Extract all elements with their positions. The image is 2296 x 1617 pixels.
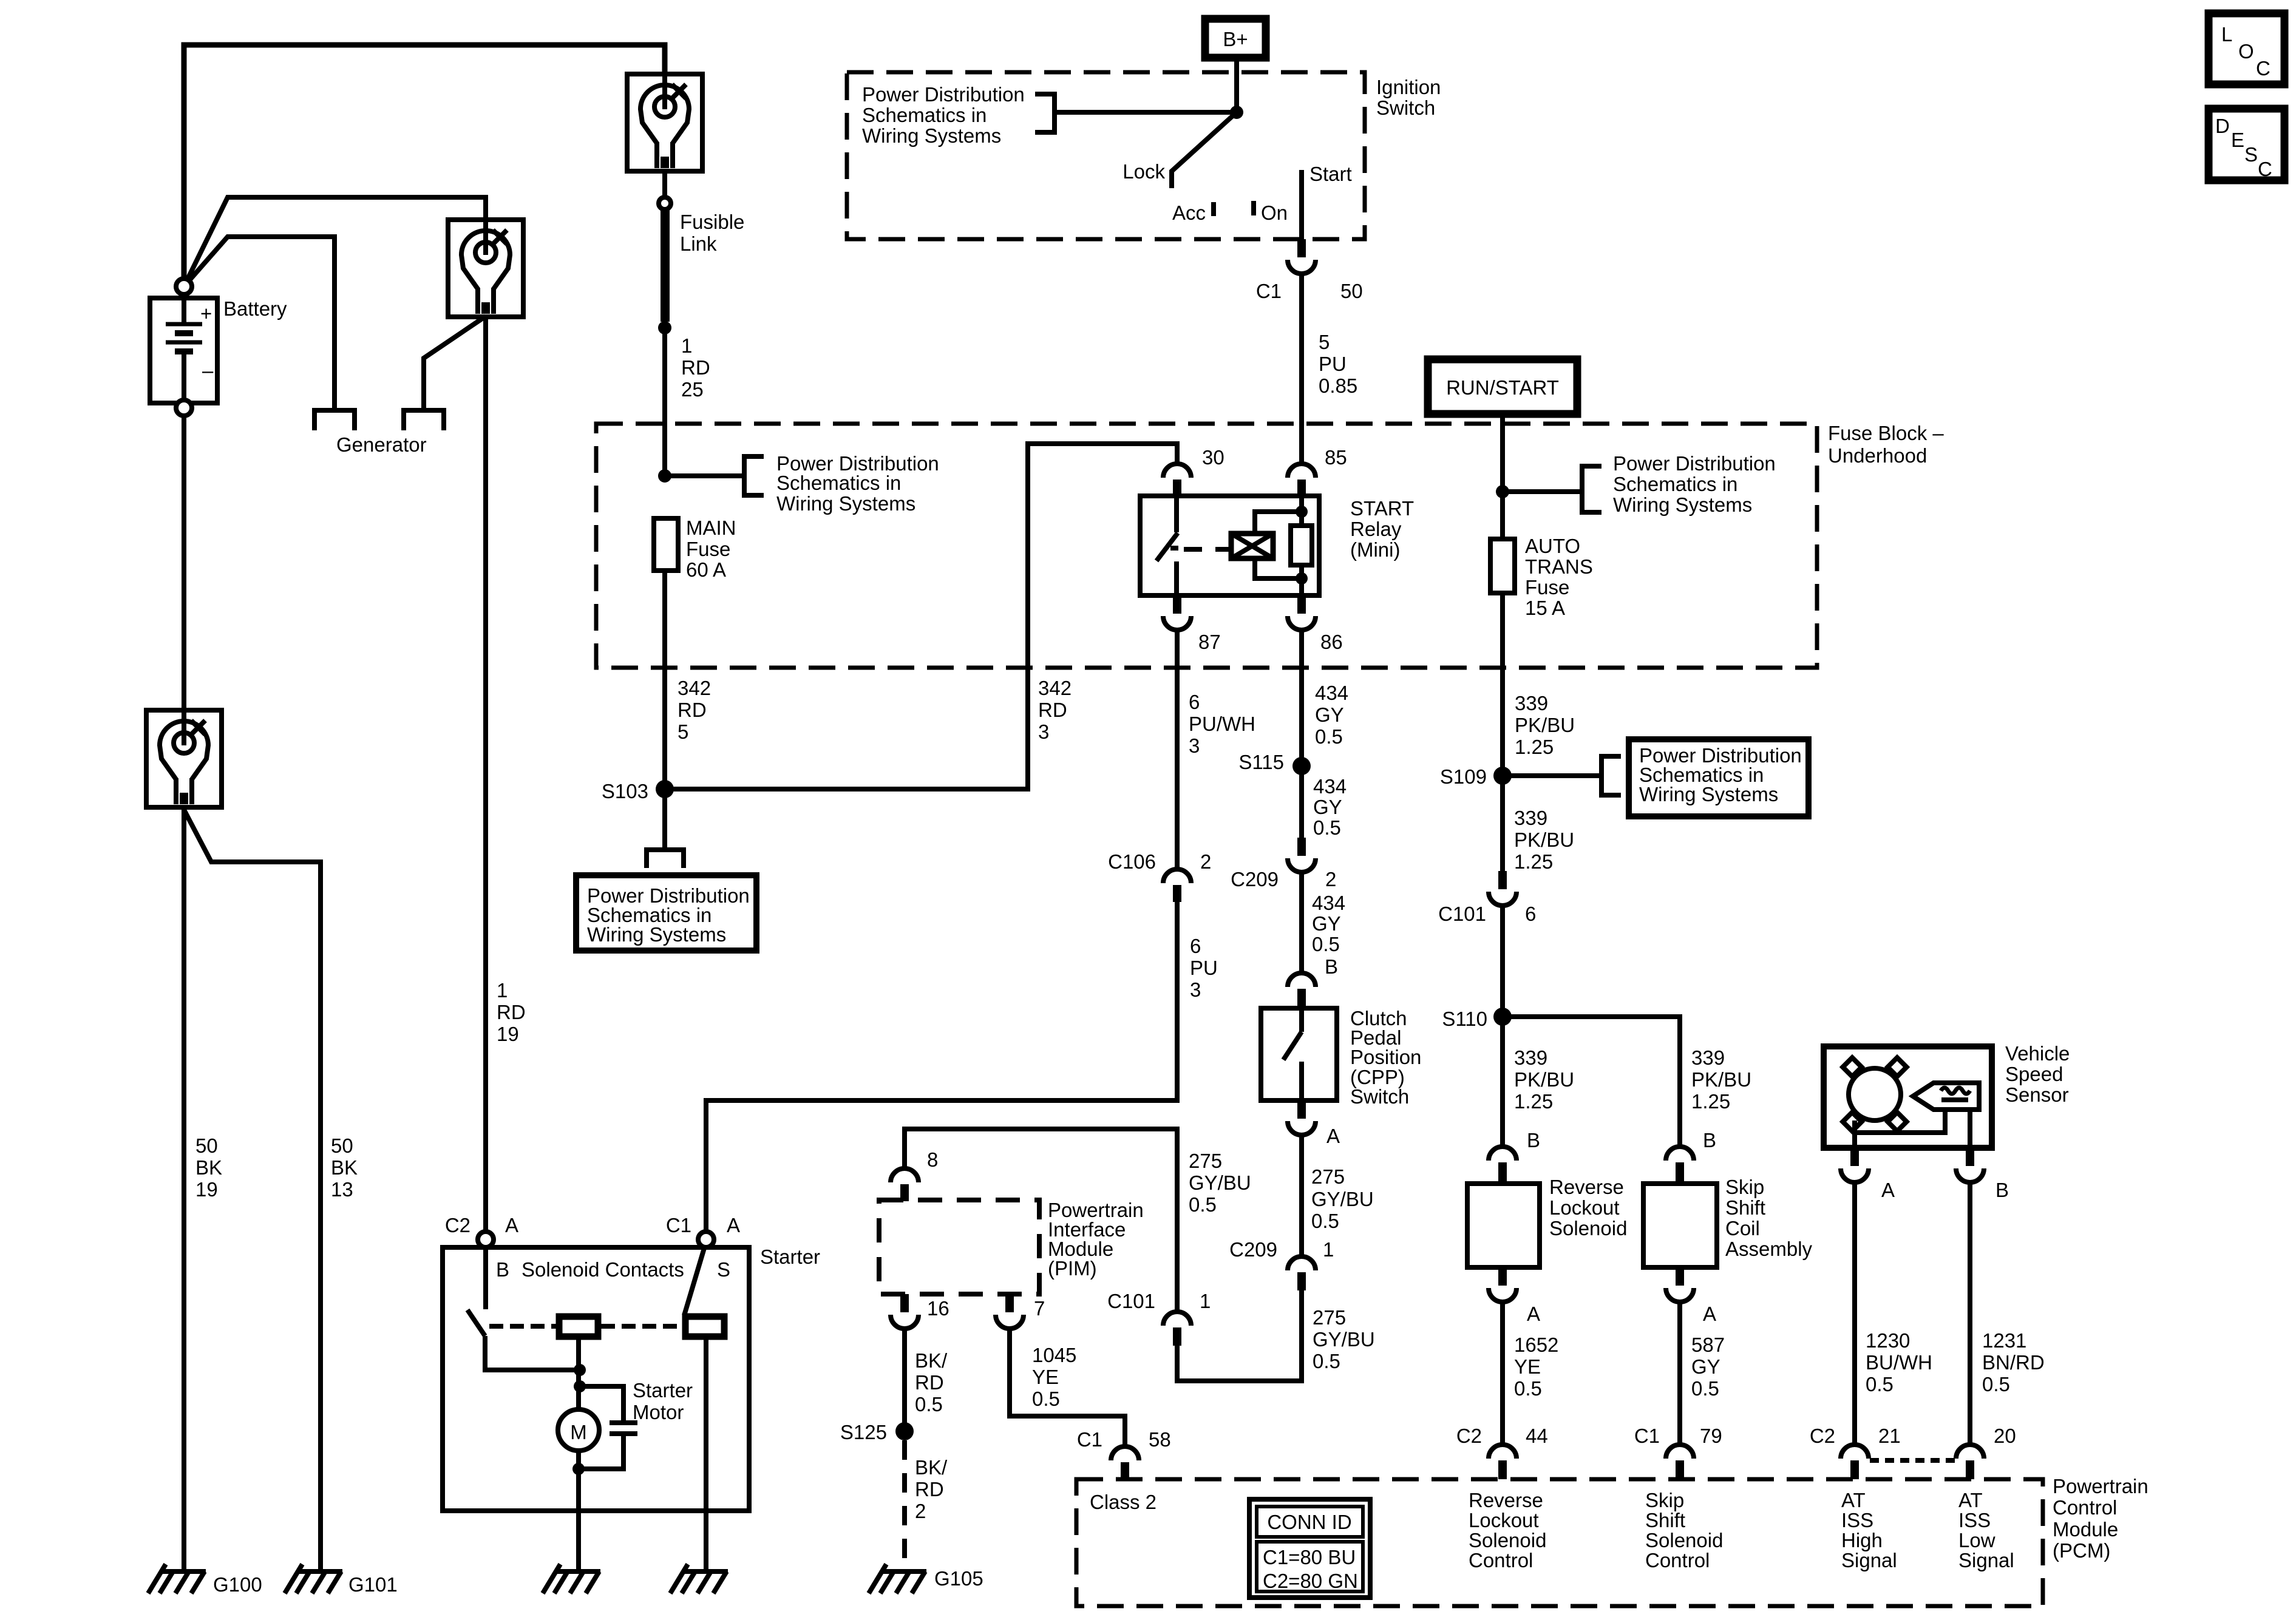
relay coil <box>1231 512 1302 578</box>
label: G101 <box>348 1573 398 1596</box>
svg-text:Fusible: Fusible <box>680 211 744 233</box>
svg-text:Skip: Skip <box>1725 1176 1764 1198</box>
connector: relay pin 86 <box>1288 595 1316 630</box>
wire: S103 branch right and up to relay 30 <box>665 444 1177 789</box>
svg-text:Acc: Acc <box>1172 202 1206 224</box>
svg-text:CONN ID: CONN ID <box>1267 1511 1351 1533</box>
svg-text:15 A: 15 A <box>1525 597 1565 619</box>
label: C2 / 21 <box>1810 1425 1901 1447</box>
svg-text:RD: RD <box>1038 699 1067 721</box>
svg-text:–: – <box>202 359 214 382</box>
wire: ring3 branch to G101 <box>184 810 321 1570</box>
svg-text:16: 16 <box>927 1297 949 1320</box>
label: Reverse Lockout Solenoid Control <box>1469 1489 1546 1571</box>
svg-text:8: 8 <box>927 1148 938 1171</box>
connector C106 pin 2 <box>1163 869 1191 902</box>
svg-text:S115: S115 <box>1238 751 1284 773</box>
starter B contact and blade <box>467 1247 580 1370</box>
svg-text:0.5: 0.5 <box>1313 1350 1340 1372</box>
solenoid dashed actuator <box>489 1324 682 1329</box>
svg-text:Lock: Lock <box>1123 160 1165 183</box>
label: S110 <box>1442 1008 1487 1030</box>
svg-text:C: C <box>2258 158 2272 180</box>
label: Powertrain Interface Module (PIM) <box>1048 1199 1144 1280</box>
junction dot at B+ feed <box>1230 106 1243 119</box>
bracket: S109 power distribution <box>1601 756 1621 795</box>
label: 85 <box>1325 446 1347 469</box>
svg-text:Power Distribution: Power Distribution <box>1613 452 1776 475</box>
svg-text:A: A <box>1881 1179 1895 1201</box>
label: S109 <box>1440 765 1487 788</box>
label: 50 BK 13 <box>331 1134 358 1201</box>
connector: skip shift pin A <box>1666 1267 1694 1302</box>
svg-text:434: 434 <box>1312 892 1345 914</box>
svg-text:58: 58 <box>1149 1428 1171 1451</box>
label: 275 GY/BU 0.5 <box>1311 1165 1374 1232</box>
label: B Solenoid Contacts S <box>496 1258 730 1281</box>
contact: Acc <box>1211 202 1216 216</box>
connector: CPP pin A <box>1288 1100 1316 1135</box>
starter motor M <box>558 1409 599 1451</box>
svg-text:A: A <box>505 1214 518 1236</box>
svg-text:Powertrain: Powertrain <box>2053 1475 2148 1497</box>
svg-text:C: C <box>2256 57 2271 80</box>
connector C1 pin 50 <box>1288 239 1316 274</box>
svg-text:50: 50 <box>331 1134 353 1157</box>
svg-text:275: 275 <box>1311 1165 1345 1188</box>
label: 5 PU 0.85 <box>1319 331 1357 397</box>
label: C2 / 44 <box>1456 1425 1548 1447</box>
connector: relay pin 87 <box>1163 595 1191 630</box>
label: Power Distribution Schematics in Wiring Systems <box>862 83 1025 147</box>
reverse lockout solenoid box <box>1467 1184 1540 1267</box>
fusible link <box>658 197 671 334</box>
label: Power Distribution Schematics in Wiring Systems <box>776 452 939 515</box>
box: Power Distribution Schematics in Wiring Systems <box>576 875 756 951</box>
svg-text:(PIM): (PIM) <box>1048 1257 1097 1280</box>
svg-text:ISS: ISS <box>1958 1509 1991 1531</box>
label: 6 PU 3 <box>1190 935 1218 1001</box>
connector: VSS pin B <box>1956 1148 1984 1182</box>
label: 7 <box>1034 1297 1045 1320</box>
svg-text:Coil: Coil <box>1725 1217 1760 1239</box>
label: 86 <box>1320 631 1343 653</box>
svg-text:Solenoid Contacts: Solenoid Contacts <box>521 1258 684 1281</box>
svg-text:Solenoid: Solenoid <box>1549 1217 1627 1239</box>
label: S103 <box>602 780 648 802</box>
generator connector left <box>314 410 355 430</box>
box: Power Distribution Schematics in Wiring Systems <box>1629 739 1809 816</box>
svg-text:C209: C209 <box>1231 868 1279 890</box>
wire: 86 down to S115 <box>1299 630 1304 838</box>
label: C1 / 58 <box>1077 1428 1171 1451</box>
connector: relay pin 30 <box>1163 464 1191 497</box>
svg-text:G101: G101 <box>348 1573 398 1596</box>
svg-text:A: A <box>1703 1303 1716 1325</box>
label: 434 GY 0.5 <box>1315 682 1348 748</box>
label: Fuse Block - Underhood <box>1828 422 1944 467</box>
svg-text:GY: GY <box>1312 912 1341 935</box>
svg-text:339: 339 <box>1691 1046 1725 1069</box>
svg-text:339: 339 <box>1514 807 1547 829</box>
svg-text:A: A <box>1326 1125 1340 1147</box>
wire: branch to bracket <box>1503 489 1582 494</box>
svg-text:Skip: Skip <box>1645 1489 1684 1511</box>
label: 434 GY 0.5 <box>1312 892 1345 955</box>
svg-text:0.5: 0.5 <box>1866 1373 1894 1395</box>
contact: Start wire <box>1299 170 1304 239</box>
svg-text:1.25: 1.25 <box>1514 1090 1553 1113</box>
ring terminal (battery ground) <box>146 710 222 807</box>
label: 339 PK/BU 1.25 <box>1514 807 1574 873</box>
svg-text:PU/WH: PU/WH <box>1189 713 1255 735</box>
svg-text:C1: C1 <box>666 1214 691 1236</box>
svg-text:GY/BU: GY/BU <box>1313 1328 1375 1351</box>
svg-text:85: 85 <box>1325 446 1347 469</box>
label: 339 PK/BU 1.25 <box>1514 1046 1574 1113</box>
label: Reverse Lockout Solenoid <box>1549 1176 1627 1239</box>
connector C1 pin 58 <box>1111 1446 1139 1480</box>
svg-text:0.5: 0.5 <box>1311 1210 1339 1232</box>
svg-text:Link: Link <box>680 232 717 255</box>
connector: PCM pin 44 <box>1489 1445 1517 1479</box>
svg-text:Vehicle: Vehicle <box>2005 1042 2070 1065</box>
label: C1 / 79 <box>1634 1425 1722 1447</box>
svg-text:C101: C101 <box>1107 1290 1155 1312</box>
svg-text:Low: Low <box>1958 1529 1995 1551</box>
svg-text:Wiring Systems: Wiring Systems <box>776 492 915 515</box>
svg-text:5: 5 <box>1319 331 1330 353</box>
svg-text:Wiring Systems: Wiring Systems <box>1613 493 1752 516</box>
svg-text:3: 3 <box>1190 978 1201 1001</box>
svg-text:Starter: Starter <box>760 1246 820 1268</box>
wire: ring2 down to starter C2/A <box>483 317 488 1232</box>
svg-text:S: S <box>717 1258 730 1281</box>
svg-text:RD: RD <box>681 356 710 379</box>
svg-text:6: 6 <box>1189 691 1200 713</box>
svg-text:GY: GY <box>1691 1355 1720 1378</box>
svg-text:86: 86 <box>1320 631 1343 653</box>
svg-text:Wiring Systems: Wiring Systems <box>862 124 1001 147</box>
svg-text:Position: Position <box>1350 1046 1421 1068</box>
connector C1 pin A (starter S) <box>698 1232 714 1247</box>
DESC box <box>2209 109 2284 180</box>
wire: ring1 to fusible link <box>662 171 667 198</box>
label: 342 RD 5 <box>678 677 711 743</box>
svg-text:PU: PU <box>1190 957 1218 979</box>
svg-text:YE: YE <box>1032 1366 1059 1388</box>
wire: 87 down to C106 <box>1175 630 1180 869</box>
relay actuator dashed link <box>1184 547 1231 552</box>
svg-text:0.5: 0.5 <box>1189 1193 1217 1216</box>
svg-text:Motor: Motor <box>633 1401 684 1423</box>
wire: SS A to PCM 79 <box>1677 1302 1682 1445</box>
junction dot below motor <box>572 1463 585 1475</box>
svg-text:342: 342 <box>1038 677 1072 699</box>
svg-text:0.5: 0.5 <box>1691 1377 1719 1400</box>
svg-text:Relay: Relay <box>1350 518 1402 540</box>
connector: relay pin 85 <box>1288 464 1316 497</box>
wire: VSS B to PCM 20 <box>1968 1182 1972 1445</box>
junction on main fuse feed <box>658 469 671 483</box>
svg-text:START: START <box>1350 497 1414 520</box>
label: B <box>1527 1129 1540 1151</box>
label: Start <box>1309 163 1352 185</box>
label: 434 GY 0.5 <box>1313 775 1347 839</box>
svg-text:RUN/START: RUN/START <box>1446 376 1559 399</box>
svg-text:BK/: BK/ <box>915 1456 948 1479</box>
svg-text:434: 434 <box>1313 775 1347 798</box>
svg-text:C1=80 BU: C1=80 BU <box>1263 1546 1356 1568</box>
label: Power Distribution Schematics in Wiring Systems <box>1613 452 1776 516</box>
svg-text:0.85: 0.85 <box>1319 375 1357 397</box>
svg-text:Shift: Shift <box>1645 1509 1685 1531</box>
svg-text:D: D <box>2215 115 2230 137</box>
svg-text:Battery: Battery <box>223 297 287 320</box>
label: 275 GY/BU 0.5 <box>1313 1306 1375 1372</box>
svg-text:0.5: 0.5 <box>1315 725 1343 748</box>
label: Acc <box>1172 202 1206 224</box>
label: 30 <box>1202 446 1224 469</box>
svg-text:Class 2: Class 2 <box>1090 1491 1156 1513</box>
connector: PIM pin 8 <box>891 1168 919 1201</box>
label: Generator <box>336 433 427 456</box>
svg-text:0.5: 0.5 <box>1982 1373 2010 1395</box>
ground (starter motor) <box>543 1564 600 1593</box>
wire: fusible link down to fuse block <box>662 328 667 476</box>
connector: reverse lockout pin A <box>1489 1267 1517 1302</box>
wire: fuse down to C101/6 <box>1500 593 1505 871</box>
solenoid contact bar 1 <box>559 1317 598 1337</box>
ring terminal (battery feed, top right) <box>627 74 702 171</box>
label: MAIN Fuse 60 A <box>686 517 736 581</box>
splice S109 <box>1493 767 1512 785</box>
svg-text:C1: C1 <box>1256 280 1282 302</box>
starter S diagonal <box>684 1246 705 1315</box>
svg-text:High: High <box>1841 1529 1883 1551</box>
label: B <box>1995 1179 2009 1201</box>
svg-text:Speed: Speed <box>2005 1063 2063 1085</box>
svg-text:19: 19 <box>195 1178 218 1201</box>
svg-text:339: 339 <box>1515 692 1548 714</box>
label: 339 PK/BU 1.25 <box>1515 692 1575 758</box>
relay resistor <box>1291 496 1312 595</box>
ring terminal (generator feed) <box>448 220 523 317</box>
svg-text:Underhood: Underhood <box>1828 444 1927 467</box>
label: AUTO TRANS Fuse 15 A <box>1525 535 1593 619</box>
svg-text:PK/BU: PK/BU <box>1515 714 1575 736</box>
svg-text:PK/BU: PK/BU <box>1691 1068 1751 1091</box>
svg-text:BN/RD: BN/RD <box>1982 1351 2045 1374</box>
svg-text:0.5: 0.5 <box>1313 816 1341 839</box>
label: C106 / 2 <box>1108 850 1211 873</box>
svg-text:B: B <box>1703 1129 1716 1151</box>
B+ box <box>1205 19 1266 58</box>
connector: skip shift pin B <box>1666 1147 1694 1184</box>
connector C209 pin 2 <box>1288 838 1316 872</box>
svg-text:Ignition: Ignition <box>1376 76 1441 98</box>
svg-text:S: S <box>2244 143 2258 166</box>
wire: branch to power distribution bracket <box>665 473 744 478</box>
svg-text:B: B <box>1995 1179 2009 1201</box>
connector: PCM pin 21 <box>1841 1445 1869 1479</box>
svg-text:2: 2 <box>1200 850 1211 873</box>
label: 275 GY/BU 0.5 <box>1189 1150 1251 1216</box>
svg-text:1: 1 <box>497 979 508 1002</box>
svg-text:0.5: 0.5 <box>1312 933 1340 955</box>
svg-text:20: 20 <box>1994 1425 2016 1447</box>
solenoid contact bar 2 <box>685 1317 724 1337</box>
label: Starter Motor <box>633 1379 693 1423</box>
label: On <box>1261 202 1288 224</box>
battery B1 <box>150 279 217 416</box>
svg-text:275: 275 <box>1189 1150 1222 1172</box>
PCM dashed box <box>1076 1479 2043 1606</box>
wire: C101/6 down to solenoid B <box>1500 906 1505 1147</box>
svg-text:(Mini): (Mini) <box>1350 538 1400 561</box>
svg-text:Reverse: Reverse <box>1549 1176 1624 1198</box>
wire: pin16 to S125 <box>902 1329 907 1423</box>
svg-text:AT: AT <box>1958 1489 1983 1511</box>
connector: CPP pin B <box>1288 973 1316 1008</box>
svg-text:79: 79 <box>1700 1425 1722 1447</box>
label: Skip Shift Coil Assembly <box>1725 1176 1813 1260</box>
svg-text:1045: 1045 <box>1032 1344 1076 1366</box>
contact: On <box>1251 201 1256 215</box>
label: A <box>1703 1303 1716 1325</box>
svg-text:G100: G100 <box>213 1573 262 1596</box>
svg-text:TRANS: TRANS <box>1525 555 1593 578</box>
wire: VSS A to PCM 21 <box>1852 1182 1857 1445</box>
ground G100 <box>148 1564 206 1593</box>
svg-text:RD: RD <box>497 1001 526 1023</box>
junction dots motor column <box>574 1364 586 1392</box>
label: 1 RD 19 <box>497 979 526 1045</box>
label: 6 PU/WH 3 <box>1189 691 1255 757</box>
capacitor branch <box>580 1386 637 1469</box>
label: 339 PK/BU 1.25 <box>1691 1046 1751 1113</box>
svg-text:Control: Control <box>1645 1549 1710 1571</box>
wire: battery negative down to ring3 <box>182 416 186 710</box>
svg-text:S103: S103 <box>602 780 648 802</box>
svg-text:50: 50 <box>1340 280 1363 302</box>
label: 1230 BU/WH 0.5 <box>1866 1329 1932 1395</box>
svg-text:Reverse: Reverse <box>1469 1489 1543 1511</box>
svg-text:0.5: 0.5 <box>1032 1388 1060 1410</box>
svg-text:Switch: Switch <box>1376 97 1435 119</box>
switch blade to Lock <box>1172 112 1237 188</box>
label: C2 / A <box>445 1214 518 1236</box>
connector C101 pin 6 <box>1489 871 1517 906</box>
skip shift coil assembly box <box>1643 1184 1717 1267</box>
connector C101 pin 1 <box>1163 1312 1191 1346</box>
svg-text:1.25: 1.25 <box>1515 736 1554 758</box>
label: Clutch Pedal Position (CPP) Switch <box>1350 1007 1421 1108</box>
label: 20 <box>1994 1425 2016 1447</box>
svg-text:Control: Control <box>2053 1496 2117 1519</box>
svg-text:MAIN: MAIN <box>686 517 736 539</box>
splice S125 <box>895 1422 914 1440</box>
svg-text:Wiring Systems: Wiring Systems <box>587 923 726 946</box>
svg-text:Shift: Shift <box>1725 1196 1765 1219</box>
wire: PIM pin 7 to C1/58 <box>1010 1329 1125 1446</box>
label: Skip Shift Solenoid Control <box>1645 1489 1723 1571</box>
svg-text:Signal: Signal <box>1958 1549 2014 1571</box>
junction dots on pin85 line <box>1296 506 1308 585</box>
svg-text:2: 2 <box>915 1500 926 1522</box>
svg-text:Generator: Generator <box>336 433 427 456</box>
svg-text:1: 1 <box>681 334 692 357</box>
label: C209 / 1 <box>1229 1238 1334 1261</box>
svg-text:G105: G105 <box>934 1567 983 1590</box>
svg-text:Power Distribution: Power Distribution <box>862 83 1025 106</box>
wire: CPP A down to C209/1 <box>1299 1135 1304 1256</box>
wire: B+ feed into switch <box>1234 58 1239 112</box>
svg-text:(PCM): (PCM) <box>2053 1539 2110 1562</box>
label: C1 / A <box>666 1214 740 1236</box>
CONN ID table <box>1249 1499 1370 1598</box>
svg-text:S110: S110 <box>1442 1008 1487 1030</box>
AUTO TRANS fuse 15A <box>1490 539 1515 593</box>
svg-text:Fuse: Fuse <box>686 538 730 560</box>
svg-text:1230: 1230 <box>1866 1329 1910 1352</box>
svg-text:30: 30 <box>1202 446 1224 469</box>
label: 1045 YE 0.5 <box>1032 1344 1076 1410</box>
svg-text:1: 1 <box>1323 1238 1334 1261</box>
svg-text:RD: RD <box>915 1478 944 1500</box>
label: Fusible Link <box>680 211 744 255</box>
svg-text:RD: RD <box>915 1371 944 1394</box>
label: 587 GY 0.5 <box>1691 1334 1725 1400</box>
svg-text:PU: PU <box>1319 353 1347 375</box>
svg-text:AT: AT <box>1841 1489 1866 1511</box>
svg-text:C2: C2 <box>1810 1425 1835 1447</box>
svg-text:Signal: Signal <box>1841 1549 1897 1571</box>
wire: S110 branch to skip shift column <box>1503 1017 1680 1147</box>
label: B <box>1325 955 1338 978</box>
label: C209 / 2 <box>1231 868 1336 890</box>
label: 342 RD 3 <box>1038 677 1072 743</box>
svg-text:1231: 1231 <box>1982 1329 2026 1352</box>
svg-text:A: A <box>727 1214 740 1236</box>
svg-text:BK: BK <box>331 1156 358 1179</box>
svg-text:B: B <box>1527 1129 1540 1151</box>
svg-text:21: 21 <box>1878 1425 1901 1447</box>
label: 8 <box>927 1148 938 1171</box>
fuse block dashed box <box>596 424 1817 668</box>
label: BK/ RD 2 <box>915 1456 948 1522</box>
svg-text:Schematics in: Schematics in <box>1613 473 1737 495</box>
svg-text:Control: Control <box>1469 1549 1533 1571</box>
svg-text:S125: S125 <box>840 1421 887 1443</box>
svg-text:0.5: 0.5 <box>1514 1377 1542 1400</box>
svg-text:RD: RD <box>678 699 707 721</box>
svg-text:434: 434 <box>1315 682 1348 704</box>
label: C1 / 50 <box>1256 280 1363 302</box>
svg-text:3: 3 <box>1189 734 1200 757</box>
bracket: power distribution (fuse block right) <box>1582 466 1601 512</box>
RUN/START box <box>1428 359 1577 414</box>
svg-text:B+: B+ <box>1223 28 1248 50</box>
svg-text:GY: GY <box>1313 796 1342 818</box>
connector C209 pin 1 <box>1288 1256 1316 1290</box>
wire: main fuse to S103 <box>662 571 667 849</box>
wire: battery + diagonals to feeds <box>184 197 486 409</box>
svg-text:44: 44 <box>1526 1425 1548 1447</box>
svg-text:BK/: BK/ <box>915 1349 948 1372</box>
svg-text:87: 87 <box>1198 631 1221 653</box>
connector C2 pin A (starter B) <box>478 1232 494 1247</box>
